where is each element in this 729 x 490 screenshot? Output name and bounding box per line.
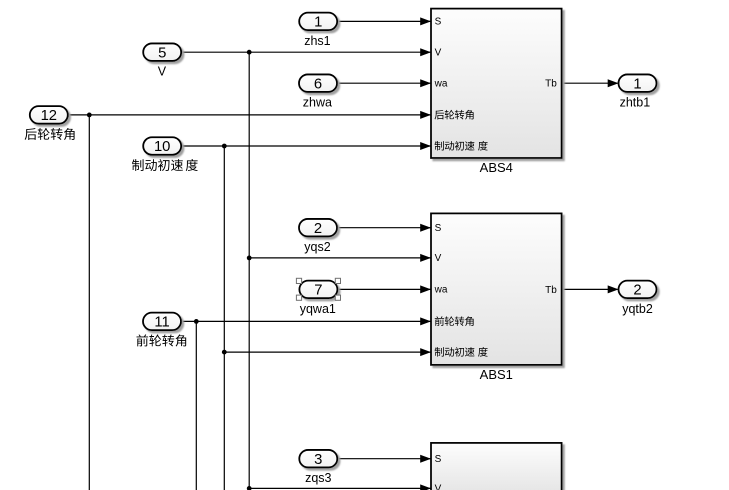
- svg-text:2: 2: [633, 283, 641, 299]
- wire: 前轮转角 vertical bus x=196.3: [195, 321, 197, 490]
- inport 12: [30, 106, 68, 124]
- svg-text:S: S: [435, 454, 442, 465]
- inport 6: [299, 74, 337, 92]
- outport 2: [619, 281, 657, 299]
- svg-text:ABS4: ABS4: [480, 160, 513, 175]
- wire zhs1 -> ABS4.S: [337, 17, 431, 25]
- label yqs2: [304, 240, 330, 254]
- svg-text:1: 1: [314, 15, 322, 31]
- subsystem block ABS3 (partial): [431, 443, 562, 490]
- label zqs3: [305, 471, 331, 485]
- label V: [158, 65, 167, 79]
- wire zhwa -> ABS4.wa: [337, 79, 431, 87]
- junction V bus ABS1: [247, 256, 252, 261]
- label 前轮转角: [136, 334, 186, 346]
- svg-text:zhs1: zhs1: [304, 34, 330, 48]
- svg-text:2: 2: [314, 221, 322, 237]
- svg-text:Tb: Tb: [545, 285, 557, 296]
- wire V bus -> ABS1.V: [249, 254, 431, 262]
- subsystem block ABS1: [431, 213, 562, 382]
- junction on 前轮转角 wire: [194, 319, 199, 324]
- wire 后轮转角(12) -> ABS4: [68, 111, 431, 119]
- svg-text:6: 6: [314, 76, 322, 92]
- svg-text:yqwa1: yqwa1: [300, 302, 336, 316]
- junction 制动初速度 bus ABS1: [222, 350, 227, 355]
- svg-text:wa: wa: [434, 78, 448, 89]
- inport 2: [299, 219, 337, 237]
- label zhs1: [304, 34, 330, 48]
- inport 1: [299, 13, 337, 31]
- junction V bus ABS3: [247, 486, 252, 490]
- svg-text:wa: wa: [434, 285, 448, 296]
- wire zqs3 -> ABS3.S: [337, 455, 431, 463]
- label 制动初速度: [132, 159, 198, 171]
- wire: 制动初速度 vertical bus x=224: [223, 146, 225, 490]
- inport 7 (selected): [299, 281, 337, 299]
- wire 制动初速度 bus -> ABS1: [224, 348, 431, 356]
- wire: 后轮转角 vertical bus x=89.5: [88, 115, 90, 490]
- wire yqs2 -> ABS1.S: [337, 224, 431, 232]
- junction on 后轮转角 wire: [87, 113, 92, 118]
- svg-text:zqs3: zqs3: [305, 471, 331, 485]
- label yqtb2: [622, 302, 653, 316]
- wire 制动初速度(10) -> ABS4: [183, 142, 432, 150]
- wire ABS1.Tb -> yqtb2: [562, 285, 619, 293]
- label yqwa1: [300, 302, 336, 316]
- svg-text:V: V: [435, 47, 442, 58]
- inport 5: [143, 43, 181, 61]
- svg-text:S: S: [435, 17, 442, 28]
- svg-text:7: 7: [314, 283, 322, 299]
- label zhwa: [303, 96, 332, 110]
- svg-text:V: V: [158, 65, 167, 79]
- label 后轮转角: [25, 128, 75, 140]
- svg-text:yqs2: yqs2: [304, 240, 330, 254]
- svg-text:zhwa: zhwa: [303, 96, 332, 110]
- wire 前轮转角(11) -> ABS1: [181, 317, 432, 325]
- junction on V wire: [247, 50, 252, 55]
- inport 11: [143, 313, 181, 331]
- outport 1: [619, 74, 657, 92]
- wire ABS4.Tb -> zhtb1: [562, 79, 619, 87]
- svg-text:5: 5: [158, 45, 166, 61]
- svg-text:3: 3: [314, 452, 322, 468]
- svg-text:11: 11: [154, 315, 169, 331]
- svg-text:S: S: [435, 223, 442, 234]
- svg-text:1: 1: [633, 76, 641, 92]
- svg-text:V: V: [435, 253, 442, 264]
- label zhtb1: [620, 96, 651, 110]
- wire V bus -> ABS3.V: [249, 484, 431, 490]
- svg-text:12: 12: [41, 108, 57, 124]
- svg-text:zhtb1: zhtb1: [620, 96, 651, 110]
- svg-text:10: 10: [154, 139, 170, 155]
- svg-text:ABS1: ABS1: [480, 367, 513, 382]
- svg-text:yqtb2: yqtb2: [622, 302, 653, 316]
- wire: V vertical bus x=249: [248, 52, 250, 490]
- selection handles of inport 7: [296, 278, 340, 300]
- inport 3: [299, 450, 337, 468]
- svg-text:Tb: Tb: [545, 79, 557, 90]
- svg-text:V: V: [435, 484, 442, 490]
- junction on 制动初速度 wire: [222, 144, 227, 149]
- subsystem block ABS4: [431, 9, 562, 176]
- wire V(5) -> ABS4.V: [180, 48, 431, 56]
- inport 10: [143, 137, 181, 155]
- wire yqwa1 -> ABS1.wa: [338, 285, 432, 293]
